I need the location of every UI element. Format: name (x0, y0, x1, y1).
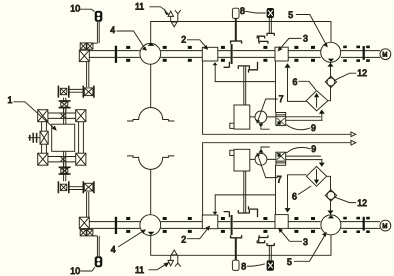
suction bell / tank above pump 4' (127, 156, 174, 170)
gearbox 1: corner bearing TL (38, 110, 48, 122)
svg-text:9: 9 (311, 144, 316, 154)
wire: box 3' drain to filter line (288, 175, 307, 208)
leader for bottom label 12 (334, 197, 356, 203)
shift fork bracket below shaft (top) (224, 62, 258, 73)
svg-text:8: 8 (240, 6, 245, 16)
leader for bottom label 4 (118, 231, 143, 247)
piston rod top (to control cylinder) (244, 66, 246, 105)
svg-text:5: 5 (288, 10, 293, 20)
speed sensor 8 black box (bottom) (267, 260, 274, 271)
svg-text:10: 10 (70, 4, 80, 14)
svg-text:1: 1 (8, 95, 13, 105)
wires: box9 to filter riser (bottom) (286, 156, 323, 164)
wire: box 3 left drain drop (275, 61, 277, 112)
drain triangle under box 2 (213, 62, 218, 65)
flange coupling above end bearing (two X squares) (80, 43, 93, 49)
wire: box 2' drain to junction (215, 195, 275, 212)
oil cup 10 bottom (black, two dots) (95, 256, 103, 267)
bottom shaft end bearing block with X (79, 217, 89, 228)
gearbox 1: upper shaft (38, 113, 86, 118)
leader for bottom label 9 (286, 147, 311, 153)
wire: cup 10 to shaft end coupling (93, 22, 99, 43)
leader for label 7 through gauge (258, 99, 278, 121)
leader for label 12 (334, 73, 356, 80)
leader for bottom label 11 (149, 265, 165, 270)
gauge pump 7 (bottom) (255, 147, 270, 165)
wire: bottom white sensor drop (235, 238, 237, 260)
loading pump 5 (top) (321, 42, 341, 62)
leader for bottom label 3 (280, 230, 302, 241)
control cylinder (top) (230, 105, 250, 129)
suction bell / tank under pump 4 (127, 108, 174, 121)
jog shaft with flange coupling (left) and bearing (right) (58, 86, 94, 98)
top drive shaft (double line segments) (89, 51, 380, 58)
flange coupling below end bearing (80, 230, 93, 236)
test pump 4 (top) (140, 43, 161, 65)
wire: top hydraulic loop from pump 4 top to pump 5 top (151, 22, 331, 44)
leader for bottom label 7 through gauge (258, 156, 278, 178)
vertical shaft from gearbox down to lower jog (64, 163, 66, 181)
torque sensor box 2' (bottom) (202, 215, 218, 229)
control cylinder (bottom) (230, 149, 250, 171)
wire: pump 5 down through check valve to filter (top) (328, 62, 331, 100)
gear mesh mark upper (61, 114, 66, 118)
test pump 4' (bottom) (140, 215, 161, 236)
svg-text:M: M (382, 224, 387, 230)
flow arrow down into pump 5' (327, 211, 333, 215)
gearbox 1: housing side columns (42, 122, 84, 154)
svg-text:M: M (382, 53, 387, 59)
bottom hydraulic loop from pump 4' to pump 5' (151, 235, 331, 255)
clutch disc top (231, 44, 233, 64)
leader for bottom label 6 (298, 186, 311, 195)
shaft end bearing block with X (79, 50, 89, 61)
svg-text:4: 4 (110, 25, 115, 35)
wires: box9 to filter riser (top) (286, 113, 323, 121)
throttle box 9 (bottom) (276, 152, 286, 165)
leader for bottom label 2 (187, 229, 208, 239)
check valve 12 (bottom) (325, 190, 336, 201)
leader for label 9 (286, 125, 310, 130)
bearing box 3 (top) (275, 47, 288, 61)
wire: pump 5' up through check valve to filter (bottom) (327, 176, 331, 214)
wire: bottom sensor 8 drop (269, 246, 271, 261)
bearing box 3' (bottom) (275, 215, 288, 229)
wire: sensor to clutch bracket (235, 18, 237, 41)
leader for label 3 (280, 38, 302, 49)
svg-text:9: 9 (311, 123, 316, 133)
svg-text:5: 5 (287, 257, 292, 267)
leader for bottom label 10 (81, 267, 95, 271)
wire: pump 4 to suction bell (150, 64, 152, 107)
electric motor M (top) (380, 49, 391, 60)
gearbox 1: corner bearing BR (76, 153, 86, 165)
long drain line to tank (upper) with arrow (203, 61, 353, 134)
loading pump 5' (bottom) (321, 215, 341, 235)
vertical shaft from lower jog down to bottom drive shaft (87, 192, 89, 217)
leader for bottom label 5 (294, 235, 325, 262)
drain triangle above box 3' (285, 208, 291, 212)
svg-text:4: 4 (111, 245, 116, 255)
electric motor M (bottom) (380, 220, 391, 231)
leader for label 10 (80, 9, 95, 11)
oil cup 10 (black, two dots) (95, 11, 103, 22)
piston rod bottom (244, 171, 246, 213)
svg-text:11: 11 (135, 265, 144, 275)
relief valve 11 on top loop (168, 10, 181, 27)
bottom drive shaft (double line segments) (89, 222, 380, 229)
wire: box 3 drain to filter line (288, 68, 307, 102)
svg-text:11: 11 (135, 2, 144, 12)
long drain line to tank (lower) with arrow (203, 143, 353, 215)
gearbox 1: left input stub shaft with flanges (28, 133, 40, 143)
flange coupling below gearbox (59, 167, 71, 174)
gearbox 1: lower shaft (38, 157, 86, 162)
wires: cylinder-gauge-box9 chain (top) (250, 116, 276, 118)
gearbox 1: inner gear box (52, 124, 75, 151)
wire: box 3' left drain riser (275, 165, 277, 214)
gearbox 1: vertical gear shaft upper (64, 108, 66, 124)
leader for label 8 (245, 11, 266, 13)
flywheel disc bottom-left (115, 217, 117, 234)
svg-text:12: 12 (357, 198, 367, 208)
bearing marks along bottom shaft (126, 217, 370, 233)
coupling disc bottom-right (363, 217, 365, 231)
wire: sensor 8 drop (269, 18, 271, 33)
leader for bottom label 8 (247, 264, 265, 266)
clutch bracket for white sensor (top) (230, 41, 242, 44)
relief valve 11 on bottom loop (168, 250, 181, 267)
wire: box 2 drain to junction (215, 65, 275, 81)
svg-text:3: 3 (303, 237, 308, 247)
svg-text:8: 8 (241, 262, 246, 272)
clutch bracket set right (bottom) (257, 235, 275, 245)
bearing marks along top shaft (126, 46, 370, 62)
svg-text:10: 10 (70, 266, 80, 276)
speed sensor 8 (black box) (267, 8, 274, 18)
drain triangle above box 2' (213, 212, 218, 215)
temperature sensor white box (bottom) (232, 260, 239, 270)
gearbox 1: left input bearing (40, 131, 48, 144)
wire: bottom coupling to oil cup 10 (93, 236, 99, 256)
svg-text:3: 3 (303, 33, 308, 43)
wires: cylinder-gauge-box9 chain (bottom) (250, 158, 276, 160)
shift fork bracket above shaft (bottom) (224, 206, 258, 217)
clutch disc bottom (231, 215, 233, 235)
svg-text:6: 6 (292, 191, 297, 201)
svg-text:2: 2 (181, 234, 186, 244)
filter 6 (top) (306, 91, 328, 111)
coupling disc top-right (363, 46, 365, 60)
leader for label 4 (117, 31, 145, 48)
leader for label 11 (150, 7, 166, 11)
leader for label 5 (296, 15, 326, 45)
leader for label 2 (187, 40, 206, 47)
svg-text:2: 2 (181, 34, 186, 44)
gearbox 1: corner bearing TR (76, 110, 86, 122)
svg-text:6: 6 (293, 77, 298, 87)
lower jog shaft with flange coupling and bearing (58, 181, 94, 193)
svg-text:7: 7 (279, 94, 284, 104)
leader for label 6 (298, 81, 316, 90)
filter 6 (bottom) (306, 166, 326, 186)
torque sensor box 2 (top) (202, 47, 218, 61)
leader for label 1 (14, 102, 55, 129)
drain triangle under box 3 (285, 63, 291, 67)
gauge pump 7 (top) (255, 111, 270, 129)
svg-text:12: 12 (357, 68, 367, 78)
wire: pump 4' to suction bell (150, 169, 152, 215)
flange coupling above gearbox (59, 101, 71, 108)
temperature sensor (white box) on clutch housing top (232, 8, 239, 18)
svg-text:7: 7 (277, 175, 282, 185)
check valve 12 (top) (325, 76, 336, 87)
clutch bracket set right (top, sensor 8) (257, 33, 275, 43)
vertical shaft from jog down to gearbox (64, 98, 66, 112)
flywheel disc top-left (115, 46, 117, 63)
gearbox 1: corner bearing BL (38, 153, 48, 165)
vertical shaft from top drive shaft down to jog (87, 62, 89, 87)
gearbox 1: vertical gear shaft lower (64, 151, 66, 167)
clutch bracket for white sensor (bottom) (230, 235, 242, 238)
gear mesh mark lower (61, 157, 66, 161)
flow arrow up into pump 5 (327, 63, 333, 67)
throttle box 9 (top) (276, 113, 286, 126)
